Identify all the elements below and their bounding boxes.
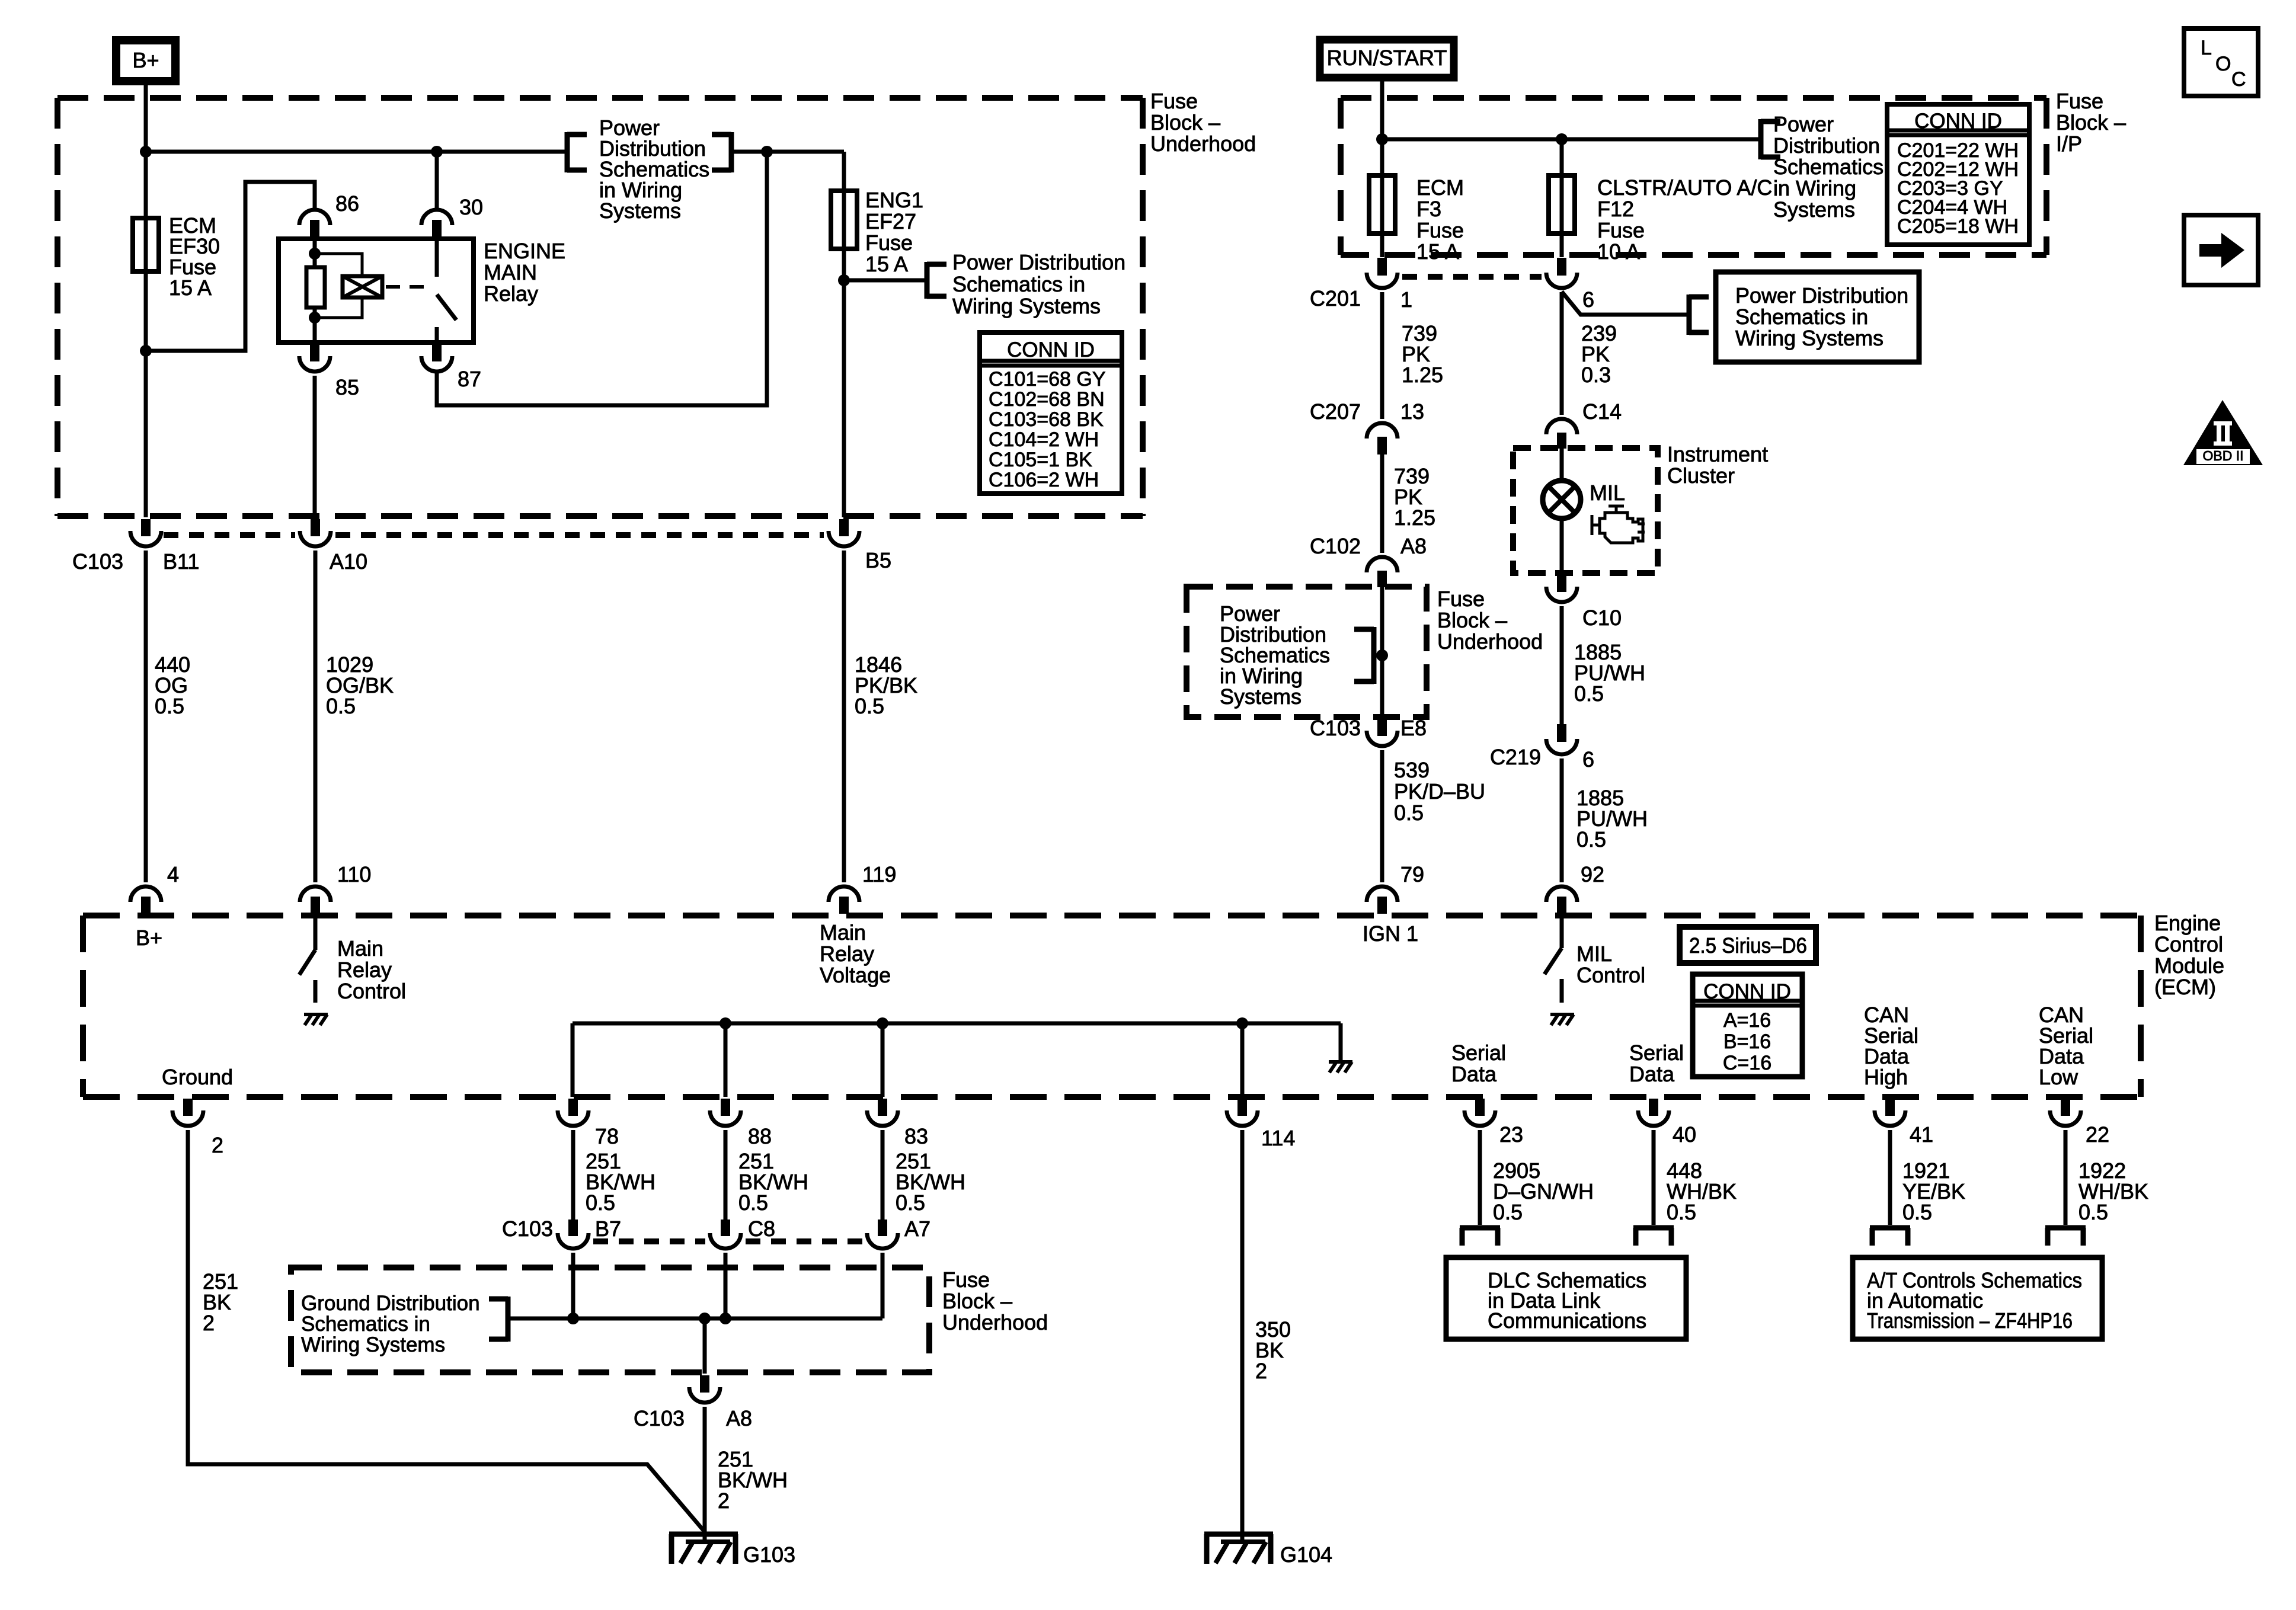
switch main relay control [314,916,318,950]
svg-text:B+: B+ [132,48,159,72]
svg-text:C103: C103 [634,1406,685,1430]
svg-text:0.5: 0.5 [1667,1200,1696,1224]
svg-text:L: L [2201,37,2212,59]
svg-text:0.3: 0.3 [1581,363,1611,387]
svg-text:C8: C8 [748,1217,775,1241]
svg-text:C207: C207 [1310,399,1361,424]
icon check engine [1592,506,1645,543]
fuse block underhood dashed box [57,98,1143,516]
svg-text:22: 22 [2086,1122,2109,1147]
svg-text:Relay: Relay [820,942,874,966]
box A/T controls schematics [1853,1257,2102,1339]
svg-text:Data: Data [1451,1062,1497,1086]
fuse F3 ECM 15A [1369,175,1395,233]
svg-text:G104: G104 [1280,1542,1332,1567]
lamp MIL indicator [1560,447,1564,481]
connector pin 83 [867,1110,898,1126]
connector pin 41 [1875,1110,1905,1126]
box DLC schematics [1446,1257,1686,1339]
icon OBD II triangle [2183,400,2263,465]
svg-text:6: 6 [1582,287,1594,312]
svg-text:Main: Main [337,936,383,961]
connector C14 [1546,419,1577,434]
reference bracket ENG1 [925,262,930,299]
svg-text:1.25: 1.25 [1394,505,1435,530]
connector C103 B7 [558,1233,589,1249]
svg-text:Schematics in: Schematics in [1735,305,1868,329]
svg-text:110: 110 [337,862,371,886]
terminal bracket pin 40 [1633,1225,1674,1231]
svg-text:B=16: B=16 [1723,1030,1771,1053]
svg-text:B+: B+ [136,926,162,950]
svg-text:2: 2 [718,1489,730,1513]
connector pin 2 [172,1110,203,1126]
svg-text:Ground: Ground [162,1065,233,1089]
svg-text:C103: C103 [1310,716,1361,740]
svg-text:Fuse: Fuse [942,1267,990,1292]
svg-text:Data: Data [1629,1062,1675,1086]
svg-text:15 A: 15 A [1416,239,1459,264]
svg-text:30: 30 [459,195,483,219]
wire B+ vertical [144,81,148,517]
svg-text:Block –: Block – [1150,110,1220,135]
svg-text:Wiring Systems: Wiring Systems [1735,326,1884,350]
ECM internal ground bus [573,1022,1341,1026]
svg-text:I/P: I/P [2056,132,2082,156]
svg-text:Systems: Systems [1773,197,1855,222]
fuse block underhood middle dashed box [1380,585,1384,717]
svg-text:E8: E8 [1400,716,1427,740]
svg-text:92: 92 [1581,862,1604,886]
svg-text:MIL: MIL [1576,942,1612,966]
terminal bracket pin 41 [1870,1225,1910,1231]
connector C103 C8 [710,1233,741,1249]
svg-text:C102: C102 [1310,534,1361,558]
relay switch [435,239,439,277]
svg-text:Communications: Communications [1488,1308,1646,1333]
svg-text:6: 6 [1582,747,1594,772]
svg-text:13: 13 [1400,399,1424,424]
svg-text:CONN ID: CONN ID [1007,338,1095,361]
connector C103 A7 [867,1233,898,1249]
svg-text:Distribution: Distribution [1773,133,1880,158]
svg-text:C219: C219 [1490,745,1541,769]
svg-text:CONN ID: CONN ID [1914,110,2002,133]
svg-text:Low: Low [2039,1065,2078,1089]
power feed B+ box [116,40,175,81]
svg-text:87: 87 [458,367,481,391]
connector pin 114 [1227,1110,1258,1126]
node ENG1/pin87 junction [761,146,773,158]
svg-text:C104=2 WH: C104=2 WH [989,428,1099,451]
svg-text:Fuse: Fuse [1150,89,1198,113]
svg-text:High: High [1864,1065,1908,1089]
connector pin 87 [421,356,452,372]
svg-text:B5: B5 [865,548,891,572]
node F12 junction [1556,133,1568,145]
svg-text:Instrument: Instrument [1667,442,1768,466]
wire RUN/START down [1380,78,1384,257]
ground G104 [1204,1532,1273,1537]
node pin30 branch [431,146,443,158]
svg-text:PK/D–BU: PK/D–BU [1394,779,1485,804]
svg-text:86: 86 [335,191,359,216]
svg-text:23: 23 [1499,1122,1523,1147]
connector C103 E8 [1367,731,1398,746]
svg-text:C205=18 WH: C205=18 WH [1897,215,2019,238]
relay ENGINE MAIN box [279,239,474,343]
wire ignition bus [1382,137,1759,142]
connector C103 B11 [130,531,161,546]
svg-text:Wiring Systems: Wiring Systems [952,294,1101,318]
ECM dashed box [83,916,2141,1097]
svg-text:4: 4 [167,862,179,886]
svg-text:G103: G103 [743,1542,795,1567]
connector line C103 short-dash [164,532,295,538]
conn id table underhood [980,332,1122,494]
svg-text:1: 1 [1400,287,1412,312]
connector pin 119 [829,886,859,902]
svg-text:C: C [2231,68,2246,91]
fuse ENG1 EF27 15A [842,152,846,517]
connector pin 23 [1464,1110,1495,1126]
svg-text:1.25: 1.25 [1402,363,1443,387]
wire 239 PK 0.3 [1560,292,1564,415]
svg-text:C102=68 BN: C102=68 BN [989,388,1105,411]
reference bracket ground dist [506,1297,511,1342]
connector C103 A8 [689,1387,720,1403]
svg-text:539: 539 [1394,758,1430,782]
svg-text:Schematics in: Schematics in [952,272,1085,296]
svg-text:0.5: 0.5 [1902,1200,1932,1224]
switch MIL control [1560,916,1564,948]
fuse block I/P dashed box [1341,98,2046,255]
svg-text:B7: B7 [595,1217,621,1241]
connector C219 6 [1546,739,1577,754]
node middle junction [1376,649,1388,661]
svg-text:0.5: 0.5 [326,694,356,718]
connector pin 92 MIL [1546,886,1577,902]
svg-text:0.5: 0.5 [1574,681,1604,706]
wire ground collector [510,1317,882,1321]
node ENG1 ref junction [838,274,850,286]
connector C102 A8 [1367,557,1398,572]
svg-text:ECM: ECM [1416,175,1464,200]
svg-text:C10: C10 [1582,606,1622,630]
svg-text:119: 119 [862,862,896,886]
svg-text:40: 40 [1673,1122,1696,1147]
connector pin 78 [558,1110,589,1126]
wire 1885 PU/WH upper [1560,606,1564,724]
svg-text:Block –: Block – [942,1289,1012,1313]
svg-text:A7: A7 [904,1217,930,1241]
svg-text:2: 2 [1255,1359,1267,1383]
svg-text:C101=68 GY: C101=68 GY [989,368,1106,391]
svg-text:15 A: 15 A [169,276,212,300]
svg-text:2: 2 [203,1311,215,1335]
wire 1885 PU/WH lower [1560,758,1564,882]
reference bracket power distribution right [729,132,734,172]
icon LOC box [2184,28,2258,96]
svg-text:Wiring Systems: Wiring Systems [301,1333,445,1356]
svg-text:B11: B11 [163,549,199,574]
svg-text:Schematics in: Schematics in [301,1313,430,1336]
svg-text:C106=2 WH: C106=2 WH [989,469,1099,491]
connector C201 pin 1 [1367,273,1398,288]
wire bracket to ENG1 [734,150,844,154]
wire to ref bracket [844,279,925,283]
connector C103 A10 [300,531,331,546]
svg-text:MAIN: MAIN [484,260,537,284]
icon arrow box [2184,215,2258,285]
wire 350 BK 2 [1240,1130,1245,1542]
wire pin6 to power dist box [1562,292,1687,315]
wire 539 PK/D-BU [1380,750,1384,882]
svg-text:0.5: 0.5 [738,1190,768,1215]
svg-text:Block –: Block – [1437,608,1507,632]
svg-text:0.5: 0.5 [1576,827,1606,852]
reference bracket ignition [1758,119,1764,159]
wire 251 BK/WH 2 [703,1407,707,1542]
svg-text:15 A: 15 A [865,252,908,276]
svg-text:OBD II: OBD II [2202,448,2243,463]
connector pin 40 [1638,1110,1669,1126]
svg-text:EF27: EF27 [865,209,916,233]
ground internal ECM [1329,1060,1352,1064]
svg-text:83: 83 [904,1124,928,1148]
svg-text:85: 85 [335,375,359,399]
wire F12 drop [1560,139,1564,257]
connector pin 86 [299,210,330,225]
node F3 junction [1376,133,1388,145]
svg-text:79: 79 [1400,862,1424,886]
svg-text:CONN ID: CONN ID [1703,980,1791,1003]
wire B+ horizontal bus [146,150,565,154]
svg-text:Ground Distribution: Ground Distribution [301,1292,480,1315]
svg-text:Systems: Systems [599,199,681,223]
connector pin 79 IGN1 [1367,886,1398,902]
svg-text:Power: Power [1773,112,1834,136]
svg-text:10 A: 10 A [1597,239,1640,264]
svg-text:C201: C201 [1310,286,1361,311]
svg-text:F12: F12 [1597,197,1634,221]
connector C10 [1546,587,1577,602]
svg-text:Underhood: Underhood [1150,132,1256,156]
svg-text:Control: Control [337,979,406,1003]
svg-text:ENG1: ENG1 [865,188,923,212]
svg-text:Module: Module [2154,953,2224,978]
svg-text:(ECM): (ECM) [2154,975,2216,999]
svg-text:0.5: 0.5 [2078,1200,2108,1224]
svg-text:Main: Main [820,920,866,945]
relay coil winding box [315,254,362,276]
svg-text:Underhood: Underhood [1437,629,1543,654]
svg-text:C105=1 BK: C105=1 BK [989,449,1092,471]
svg-text:Transmission – ZF4HP16: Transmission – ZF4HP16 [1867,1308,2073,1333]
svg-text:O: O [2215,53,2231,75]
svg-text:Systems: Systems [1220,684,1302,709]
node B+ bus junction [140,146,152,158]
svg-text:Relay: Relay [337,958,392,982]
svg-text:A8: A8 [726,1406,752,1430]
conn id table IP [1887,104,2029,245]
svg-text:0.5: 0.5 [855,694,884,718]
svg-text:A10: A10 [330,549,367,574]
svg-text:Block –: Block – [2056,110,2126,135]
svg-text:Control: Control [1576,963,1645,987]
svg-text:A=16: A=16 [1723,1009,1771,1032]
svg-text:Cluster: Cluster [1667,463,1735,488]
svg-text:C103=68 BK: C103=68 BK [989,408,1104,431]
connector pin 22 [2050,1110,2081,1126]
svg-text:114: 114 [1261,1126,1295,1150]
box 2.5 Sirius-D6 [1680,927,1816,963]
box power distribution reference [1716,272,1919,362]
connector C103 B5 [829,531,859,546]
svg-text:78: 78 [595,1124,619,1148]
svg-text:in Wiring: in Wiring [1773,176,1856,200]
svg-text:C=16: C=16 [1723,1052,1771,1074]
svg-text:2: 2 [212,1133,223,1157]
connector pin 85 [299,356,330,372]
svg-text:C14: C14 [1582,399,1622,424]
svg-text:41: 41 [1910,1122,1933,1147]
wires into ground collector [571,1253,575,1318]
reference bracket middle [1371,627,1377,684]
svg-text:CLSTR/AUTO A/C: CLSTR/AUTO A/C [1597,175,1772,200]
reference bracket pin6 [1687,295,1692,335]
svg-text:F3: F3 [1416,197,1441,221]
wire pin85 down [313,376,317,517]
conn id table sirius [1693,974,1802,1077]
wire EF30 to relay pin 86 [146,182,315,351]
svg-text:88: 88 [748,1124,772,1148]
svg-text:Voltage: Voltage [820,963,891,987]
svg-text:Fuse: Fuse [1416,218,1464,242]
instrument cluster dashed box [1513,448,1658,573]
wire 1846 PK/BK [842,550,846,882]
wire 440 OG [144,550,148,882]
svg-text:0.5: 0.5 [586,1190,615,1215]
svg-text:0.5: 0.5 [1394,801,1424,825]
svg-text:RUN/START: RUN/START [1327,46,1447,70]
svg-text:MIL: MIL [1590,481,1625,505]
terminal bracket pin 23 [1460,1225,1500,1231]
svg-text:0.5: 0.5 [155,694,184,718]
connector pin 4 [130,886,161,902]
fuse block underhood bottom dashed box [291,1267,929,1372]
svg-text:Power Distribution: Power Distribution [952,250,1125,274]
svg-text:0.5: 0.5 [896,1190,925,1215]
relay coil resistor [313,239,317,267]
connector line C201 short-dash [1402,274,1542,280]
terminal bracket pin 22 [2045,1225,2086,1231]
connector pin 88 [710,1110,741,1126]
svg-text:Schematics: Schematics [1773,155,1884,179]
fuse F12 CLSTR 10A [1549,175,1575,233]
power feed RUN/START box [1320,40,1454,78]
svg-text:2.5 Sirius–D6: 2.5 Sirius–D6 [1689,933,1807,958]
fuse EF30 ECM 15A [144,152,148,351]
svg-text:Control: Control [2154,932,2223,956]
connector C201 pin 6 [1546,273,1577,288]
connector line C103 bottom short-dash [593,1238,705,1244]
svg-text:Underhood: Underhood [942,1310,1048,1334]
wire 739 PK 1.25 lower [1380,453,1384,553]
ground G103 [669,1532,738,1537]
svg-text:IGN 1: IGN 1 [1363,921,1418,946]
wire 1029 OG/BK [314,550,318,882]
node below EF30 [140,345,152,357]
connector pin 110 [300,886,331,902]
svg-text:Fuse: Fuse [2056,89,2103,113]
svg-text:C103: C103 [502,1217,553,1241]
reference bracket power distribution left [565,132,570,172]
svg-text:Relay: Relay [484,281,538,306]
connector pin 30 [435,152,439,208]
svg-text:Fuse: Fuse [865,231,913,255]
svg-text:Serial: Serial [1451,1041,1506,1065]
svg-text:ENGINE: ENGINE [484,239,565,263]
relay coil-switch dashed link [386,285,429,289]
svg-text:A8: A8 [1400,534,1427,558]
svg-text:Fuse: Fuse [1597,218,1645,242]
wire 251 BK 2 [188,1130,705,1532]
svg-text:Power Distribution: Power Distribution [1735,283,1908,308]
wire junction down to pin87 loop [437,152,767,405]
connector C207 13 [1367,423,1398,438]
svg-text:Fuse: Fuse [1437,587,1485,611]
svg-text:Serial: Serial [1629,1041,1684,1065]
wire 739 PK 1.25 upper [1380,292,1384,419]
svg-text:Engine: Engine [2154,911,2221,935]
svg-text:C103: C103 [72,549,123,574]
svg-text:0.5: 0.5 [1493,1200,1523,1224]
